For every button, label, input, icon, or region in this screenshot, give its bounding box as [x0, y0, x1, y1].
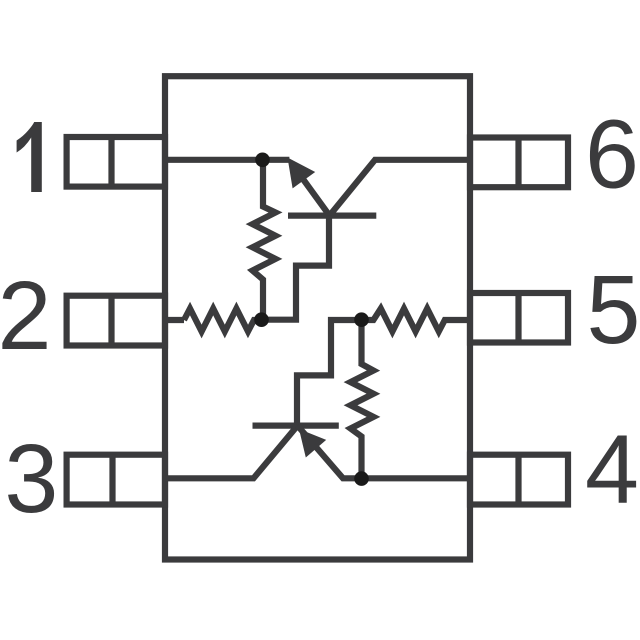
transistor Q2 base bar: [253, 423, 339, 429]
wire pin1 to node A: [165, 157, 289, 163]
pin 4 pad: [470, 455, 568, 505]
node C junction dot: [354, 312, 369, 327]
pin 1 pad: [67, 137, 165, 187]
svg-text:2: 2: [0, 261, 51, 370]
transistor Q1 collector wire to pin 6: [330, 160, 471, 216]
transistor Q2 base lead step from node C: [297, 320, 362, 426]
package body outline: [165, 76, 470, 559]
node A junction dot: [255, 153, 270, 168]
transistor Q1 base lead step to node B: [262, 216, 330, 320]
resistor R3 (horizontal, node C to pin5): [362, 309, 471, 332]
wire pin2 lead: [165, 317, 184, 323]
svg-text:4: 4: [585, 415, 639, 524]
svg-text:3: 3: [4, 424, 58, 533]
transistor Q2 emitter arrow: [299, 429, 326, 458]
transistor Q2 collector wire to pin 3: [165, 426, 298, 479]
node D junction dot: [354, 471, 369, 486]
pin 5 pad: [470, 293, 568, 343]
pin 6 pad: [470, 138, 568, 188]
pin 3 pad: [67, 455, 165, 505]
resistor R1 (vertical, node A to node B): [253, 160, 276, 320]
svg-text:6: 6: [585, 100, 639, 209]
transistor Q1 emitter wire: [298, 172, 330, 216]
pin 2 pad: [67, 296, 165, 346]
resistor R2 (horizontal, pin2 to node B): [184, 309, 262, 332]
transistor Q1 base bar: [288, 213, 376, 219]
svg-text:5: 5: [587, 255, 640, 364]
resistor R4 (vertical, node C to node D): [351, 320, 374, 479]
node B junction dot: [254, 312, 269, 327]
pin number 1 (custom glyph, no foot serif): [17, 122, 42, 192]
transistor Q1 emitter arrow: [288, 158, 316, 189]
transistor Q2 emitter wire to pin 4: [298, 426, 471, 479]
